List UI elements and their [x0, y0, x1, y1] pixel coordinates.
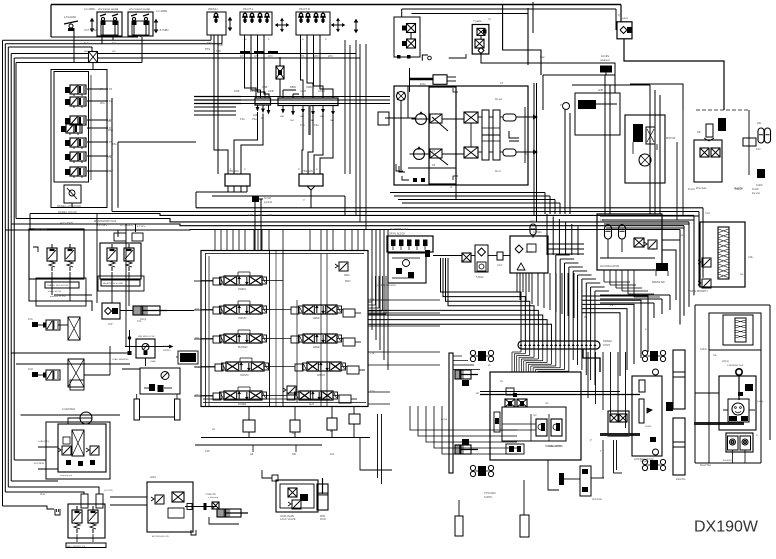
svg-text:5.5kW: 5.5kW	[476, 275, 484, 279]
svg-text:V: V	[303, 198, 305, 202]
svg-text:P1: P1	[432, 149, 436, 153]
svg-text:TRAVEL SPD SOLND: TRAVEL SPD SOLND	[47, 284, 69, 287]
svg-text:1a6%: 1a6%	[700, 347, 707, 351]
svg-text:ENG: ENG	[420, 82, 426, 86]
svg-text:2WHEEL: 2WHEEL	[640, 461, 650, 463]
svg-text:SUPPL: SUPPL	[484, 495, 493, 499]
svg-text:2nd: 2nd	[330, 453, 335, 456]
svg-text:LADbv: LADbv	[461, 259, 469, 263]
svg-text:Rod: Rod	[495, 169, 501, 173]
svg-text:ACC: ACC	[530, 219, 536, 223]
svg-text:2P1: 2P1	[300, 54, 305, 58]
svg-text:2P2: 2P2	[314, 54, 319, 58]
svg-text:3Pa: 3Pa	[108, 119, 113, 123]
svg-text:103: 103	[268, 213, 273, 217]
svg-text:2Pa: 2Pa	[100, 101, 105, 105]
svg-text:T-joint: T-joint	[620, 16, 628, 20]
svg-text:symbol: symbol	[264, 201, 272, 204]
svg-text:400: 400	[292, 453, 297, 456]
svg-text:TPG: TPG	[207, 41, 212, 45]
svg-text:(Orbit): (Orbit)	[757, 400, 763, 403]
svg-text:P2a: P2a	[252, 117, 257, 121]
svg-text:Pa2: Pa2	[195, 365, 200, 369]
svg-text:4.2-2MB2: 4.2-2MB2	[156, 9, 168, 13]
svg-text:1Pa: 1Pa	[100, 87, 105, 91]
svg-text:MRV: MRV	[345, 279, 351, 283]
svg-text:Za4c/5u: Za4c/5u	[676, 477, 686, 481]
svg-text:P1a: P1a	[240, 117, 245, 121]
svg-text:w/o travel pedal: w/o travel pedal	[129, 7, 150, 11]
svg-text:HYD 30PSI: HYD 30PSI	[60, 221, 74, 225]
svg-text:Travel solnd: Travel solnd	[33, 227, 48, 231]
svg-text:m1: m1	[545, 401, 549, 405]
svg-text:G/B: G/B	[598, 88, 603, 92]
svg-text:Drive Axle: Drive Axle	[696, 187, 707, 190]
svg-text:P2: P2	[109, 99, 113, 103]
svg-text:RH ATTACH SOLND: RH ATTACH SOLND	[103, 282, 124, 285]
svg-text:Ra 90966 safely: Ra 90966 safely	[390, 227, 409, 231]
svg-text:P1: P1	[109, 87, 113, 91]
svg-text:(2HA): (2HA)	[150, 360, 156, 363]
svg-text:10kW: 10kW	[756, 183, 763, 187]
svg-text:KTW-REC: KTW-REC	[484, 491, 496, 495]
svg-text:OAB: OAB	[262, 86, 268, 89]
svg-text:P08: P08	[108, 155, 113, 159]
svg-text:Rear/Tba: Rear/Tba	[700, 463, 711, 467]
svg-text:steering unit: steering unit	[60, 474, 72, 477]
svg-text:ROT/BPM: ROT/BPM	[34, 463, 44, 465]
svg-text:GrP: GrP	[108, 322, 113, 326]
svg-text:7wd: 7wd	[705, 211, 710, 215]
svg-text:HOIST1: HOIST1	[238, 317, 247, 320]
svg-text:a6Fd: a6Fd	[150, 475, 156, 479]
svg-text:P.2u: P.2u	[28, 317, 34, 321]
svg-text:LOAD SENSING: LOAD SENSING	[112, 358, 129, 361]
svg-text:7 parts: 7 parts	[473, 19, 482, 23]
svg-text:T8a: T8a	[112, 142, 117, 146]
svg-text:10 kW: 10 kW	[752, 189, 759, 191]
svg-text:4.2-2MBL: 4.2-2MBL	[84, 7, 96, 11]
svg-text:ACCUMULATOR: ACCUMULATOR	[600, 265, 619, 268]
svg-text:ACCESS BLOCK: ACCESS BLOCK	[152, 535, 170, 538]
svg-text:P: P	[590, 438, 592, 442]
svg-text:24fL: 24fL	[748, 255, 754, 259]
svg-text:16V: 16V	[600, 218, 605, 222]
svg-text:LWB: LWB	[268, 89, 274, 93]
svg-text:2L-5.7MB2: 2L-5.7MB2	[156, 28, 169, 32]
svg-text:L/CHAIR: L/CHAIR	[64, 15, 77, 19]
svg-text:(L HRS) Remove..: (L HRS) Remove..	[376, 283, 397, 287]
svg-text:HOIST2: HOIST2	[240, 374, 249, 377]
svg-text:T1u: T1u	[370, 323, 375, 327]
svg-text:10 kPa: 10 kPa	[601, 54, 610, 58]
svg-text:MIN SMLS VLVE: MIN SMLS VLVE	[138, 336, 155, 338]
svg-text:TDK: TDK	[218, 43, 223, 47]
svg-text:ACC: ACC	[497, 263, 503, 267]
svg-text:SWIVEL: SWIVEL	[603, 340, 613, 343]
svg-text:SJV: SJV	[756, 147, 761, 151]
svg-text:2nd axle: 2nd axle	[592, 497, 602, 501]
svg-text:rev: rev	[84, 49, 88, 53]
svg-text:PRESS SW: PRESS SW	[652, 281, 665, 284]
svg-text:TRVL MTR: TRVL MTR	[548, 444, 561, 448]
svg-text:2P4: 2P4	[328, 54, 333, 58]
svg-text:DrvAx: DrvAx	[688, 187, 696, 191]
svg-text:stroke 40 PSI: stroke 40 PSI	[48, 290, 62, 293]
svg-text:BUCKET: BUCKET	[238, 346, 248, 349]
svg-text:A UNIm: A UNIm	[533, 231, 542, 234]
svg-text:2/WHEEL (P,GN): 2/WHEEL (P,GN)	[634, 457, 654, 461]
svg-text:UWB: UWB	[300, 89, 306, 93]
svg-text:GR RL.BLOCK: GR RL.BLOCK	[389, 233, 405, 236]
svg-text:SWING: SWING	[238, 288, 246, 291]
svg-text:DAB: DAB	[234, 89, 240, 93]
svg-text:DBW: DBW	[290, 86, 296, 89]
svg-text:STEERING WHL: STEERING WHL	[727, 365, 744, 367]
svg-text:Pb2: Pb2	[195, 393, 200, 397]
svg-text:JOINT: JOINT	[603, 344, 610, 347]
svg-text:fwd: fwd	[84, 41, 89, 45]
svg-text:DuPw: DuPw	[735, 187, 742, 191]
svg-text:PILOT R: PILOT R	[299, 7, 310, 11]
svg-text:14S: 14S	[205, 449, 210, 453]
svg-text:OUT-21MZ: OUT-21MZ	[84, 28, 97, 32]
svg-text:LOAD/STG: LOAD/STG	[38, 440, 49, 443]
svg-text:12P: 12P	[248, 213, 253, 217]
svg-text:T2a: T2a	[370, 389, 375, 393]
svg-text:P3a: P3a	[300, 123, 305, 127]
svg-text:ARM2: ARM2	[313, 346, 320, 349]
svg-text:RSa: RSa	[108, 128, 114, 132]
svg-text:P.2d: P.2d	[28, 367, 34, 371]
svg-text:P2: P2	[432, 163, 436, 167]
svg-text:THIS(2): THIS(2)	[163, 346, 170, 348]
svg-text:1P3: 1P3	[268, 54, 273, 58]
svg-text:305w: 305w	[344, 274, 350, 277]
svg-text:Te M3: Te M3	[264, 197, 271, 200]
svg-text:P4a: P4a	[314, 123, 319, 127]
svg-text:untamed: untamed	[600, 59, 610, 62]
svg-text:via travel pedal: via travel pedal	[98, 7, 119, 11]
svg-text:LWB2: LWB2	[318, 89, 325, 93]
svg-text:A2: A2	[525, 152, 529, 156]
svg-text:Ua: Ua	[713, 353, 717, 357]
svg-text:ARM1: ARM1	[313, 317, 320, 320]
svg-text:MOTOR: MOTOR	[666, 137, 675, 140]
svg-text:dr: dr	[450, 185, 452, 189]
svg-text:SPRING: SPRING	[163, 350, 171, 352]
svg-text:2Ha: 2Ha	[40, 492, 45, 496]
svg-text:DOZER: DOZER	[238, 403, 247, 406]
svg-text:PUMP: PUMP	[645, 426, 652, 428]
svg-text:interlock 4T PSI: interlock 4T PSI	[50, 295, 66, 298]
svg-text:TPG: TPG	[205, 48, 210, 51]
svg-text:(47-2742): (47-2742)	[104, 490, 113, 492]
svg-text:WINCH: WINCH	[208, 7, 217, 11]
svg-text:n Steering...: n Steering...	[208, 496, 220, 499]
svg-text:AXLE(R): AXLE(R)	[723, 459, 732, 462]
svg-text:PILOT L: PILOT L	[243, 7, 254, 11]
svg-text:P.BLOCK: P.BLOCK	[302, 169, 313, 173]
svg-text:2.5-7 MPa: 2.5-7 MPa	[135, 226, 146, 228]
svg-text:HYD SAFE: HYD SAFE	[120, 223, 133, 227]
svg-text:fwd: fwd	[112, 41, 117, 45]
svg-text:WHEEL+HY SOLND: WHEEL+HY SOLND	[57, 204, 81, 208]
svg-text:Pa: Pa	[610, 303, 614, 307]
svg-text:2A(m): 2A(m)	[722, 359, 729, 363]
svg-text:Reed: Reed	[495, 97, 503, 101]
svg-text:RAL CONTROL VLV: RAL CONTROL VLV	[67, 545, 86, 548]
svg-text:D5V: D5V	[108, 169, 113, 173]
svg-text:ROD: ROD	[320, 517, 326, 521]
svg-text:UWB: UWB	[306, 86, 312, 89]
svg-text:low visc: low visc	[752, 193, 761, 195]
svg-text:Pb1: Pb1	[195, 336, 200, 340]
svg-text:1P2: 1P2	[254, 54, 259, 58]
svg-text:WINCH: WINCH	[317, 374, 325, 377]
svg-text:StCyl: StCyl	[140, 317, 147, 321]
svg-text:Pa1: Pa1	[195, 307, 200, 311]
svg-text:DBW: DBW	[250, 89, 257, 93]
svg-text:LOAD/SEN: LOAD/SEN	[62, 407, 75, 411]
svg-text:m2: m2	[533, 413, 537, 417]
svg-text:A.Mfd: A.Mfd	[525, 250, 532, 254]
svg-text:P3: P3	[560, 103, 564, 107]
svg-text:2.5-7 MPa: 2.5-7 MPa	[97, 225, 108, 227]
svg-text:24C: 24C	[757, 122, 762, 125]
svg-text:1P4: 1P4	[240, 54, 245, 58]
svg-text:n Star-Po: n Star-Po	[205, 492, 217, 496]
svg-text:WHEEL SOLND: WHEEL SOLND	[58, 210, 77, 214]
svg-text:102: 102	[258, 213, 263, 217]
svg-text:A1: A1	[525, 115, 529, 119]
svg-text:LACK VALVE: LACK VALVE	[280, 517, 296, 521]
svg-text:TDK: TDK	[216, 50, 221, 53]
svg-text:DX190W: DX190W	[694, 519, 759, 536]
svg-text:AUX: AUX	[309, 403, 314, 406]
svg-text:SWING PRIORITY: SWING PRIORITY	[688, 290, 708, 293]
svg-text:pdl: pdl	[250, 453, 254, 456]
svg-text:2Ta: 2Ta	[370, 351, 375, 355]
